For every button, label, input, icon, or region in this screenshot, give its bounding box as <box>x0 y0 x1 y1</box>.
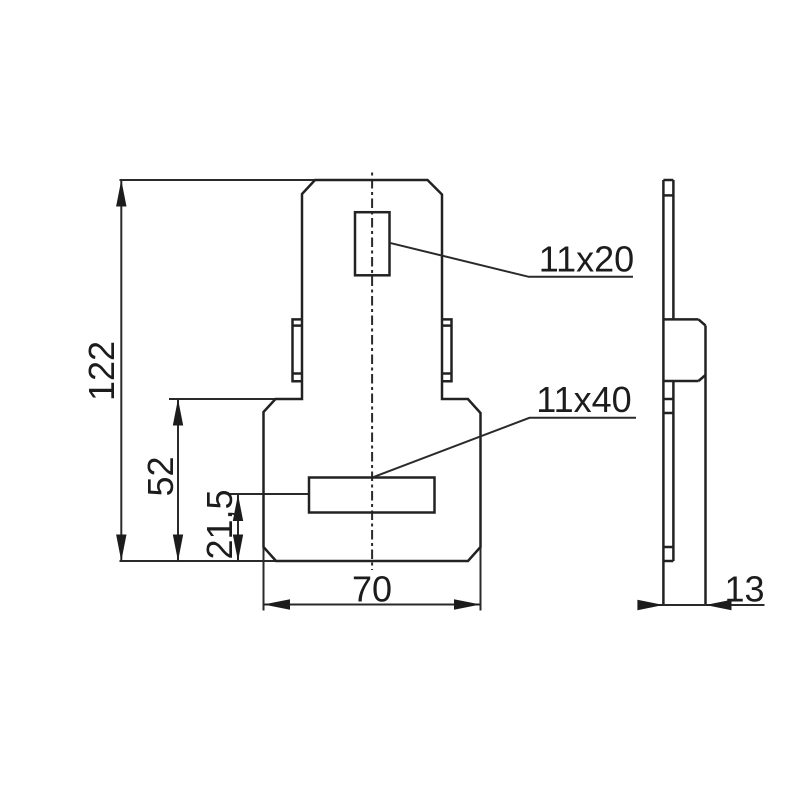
svg-text:11x20: 11x20 <box>539 238 634 279</box>
svg-text:122: 122 <box>81 341 122 401</box>
svg-text:13: 13 <box>724 569 764 610</box>
svg-text:70: 70 <box>352 569 392 610</box>
svg-text:21,5: 21,5 <box>199 489 240 559</box>
svg-text:11x40: 11x40 <box>536 379 631 420</box>
svg-text:52: 52 <box>140 456 181 496</box>
